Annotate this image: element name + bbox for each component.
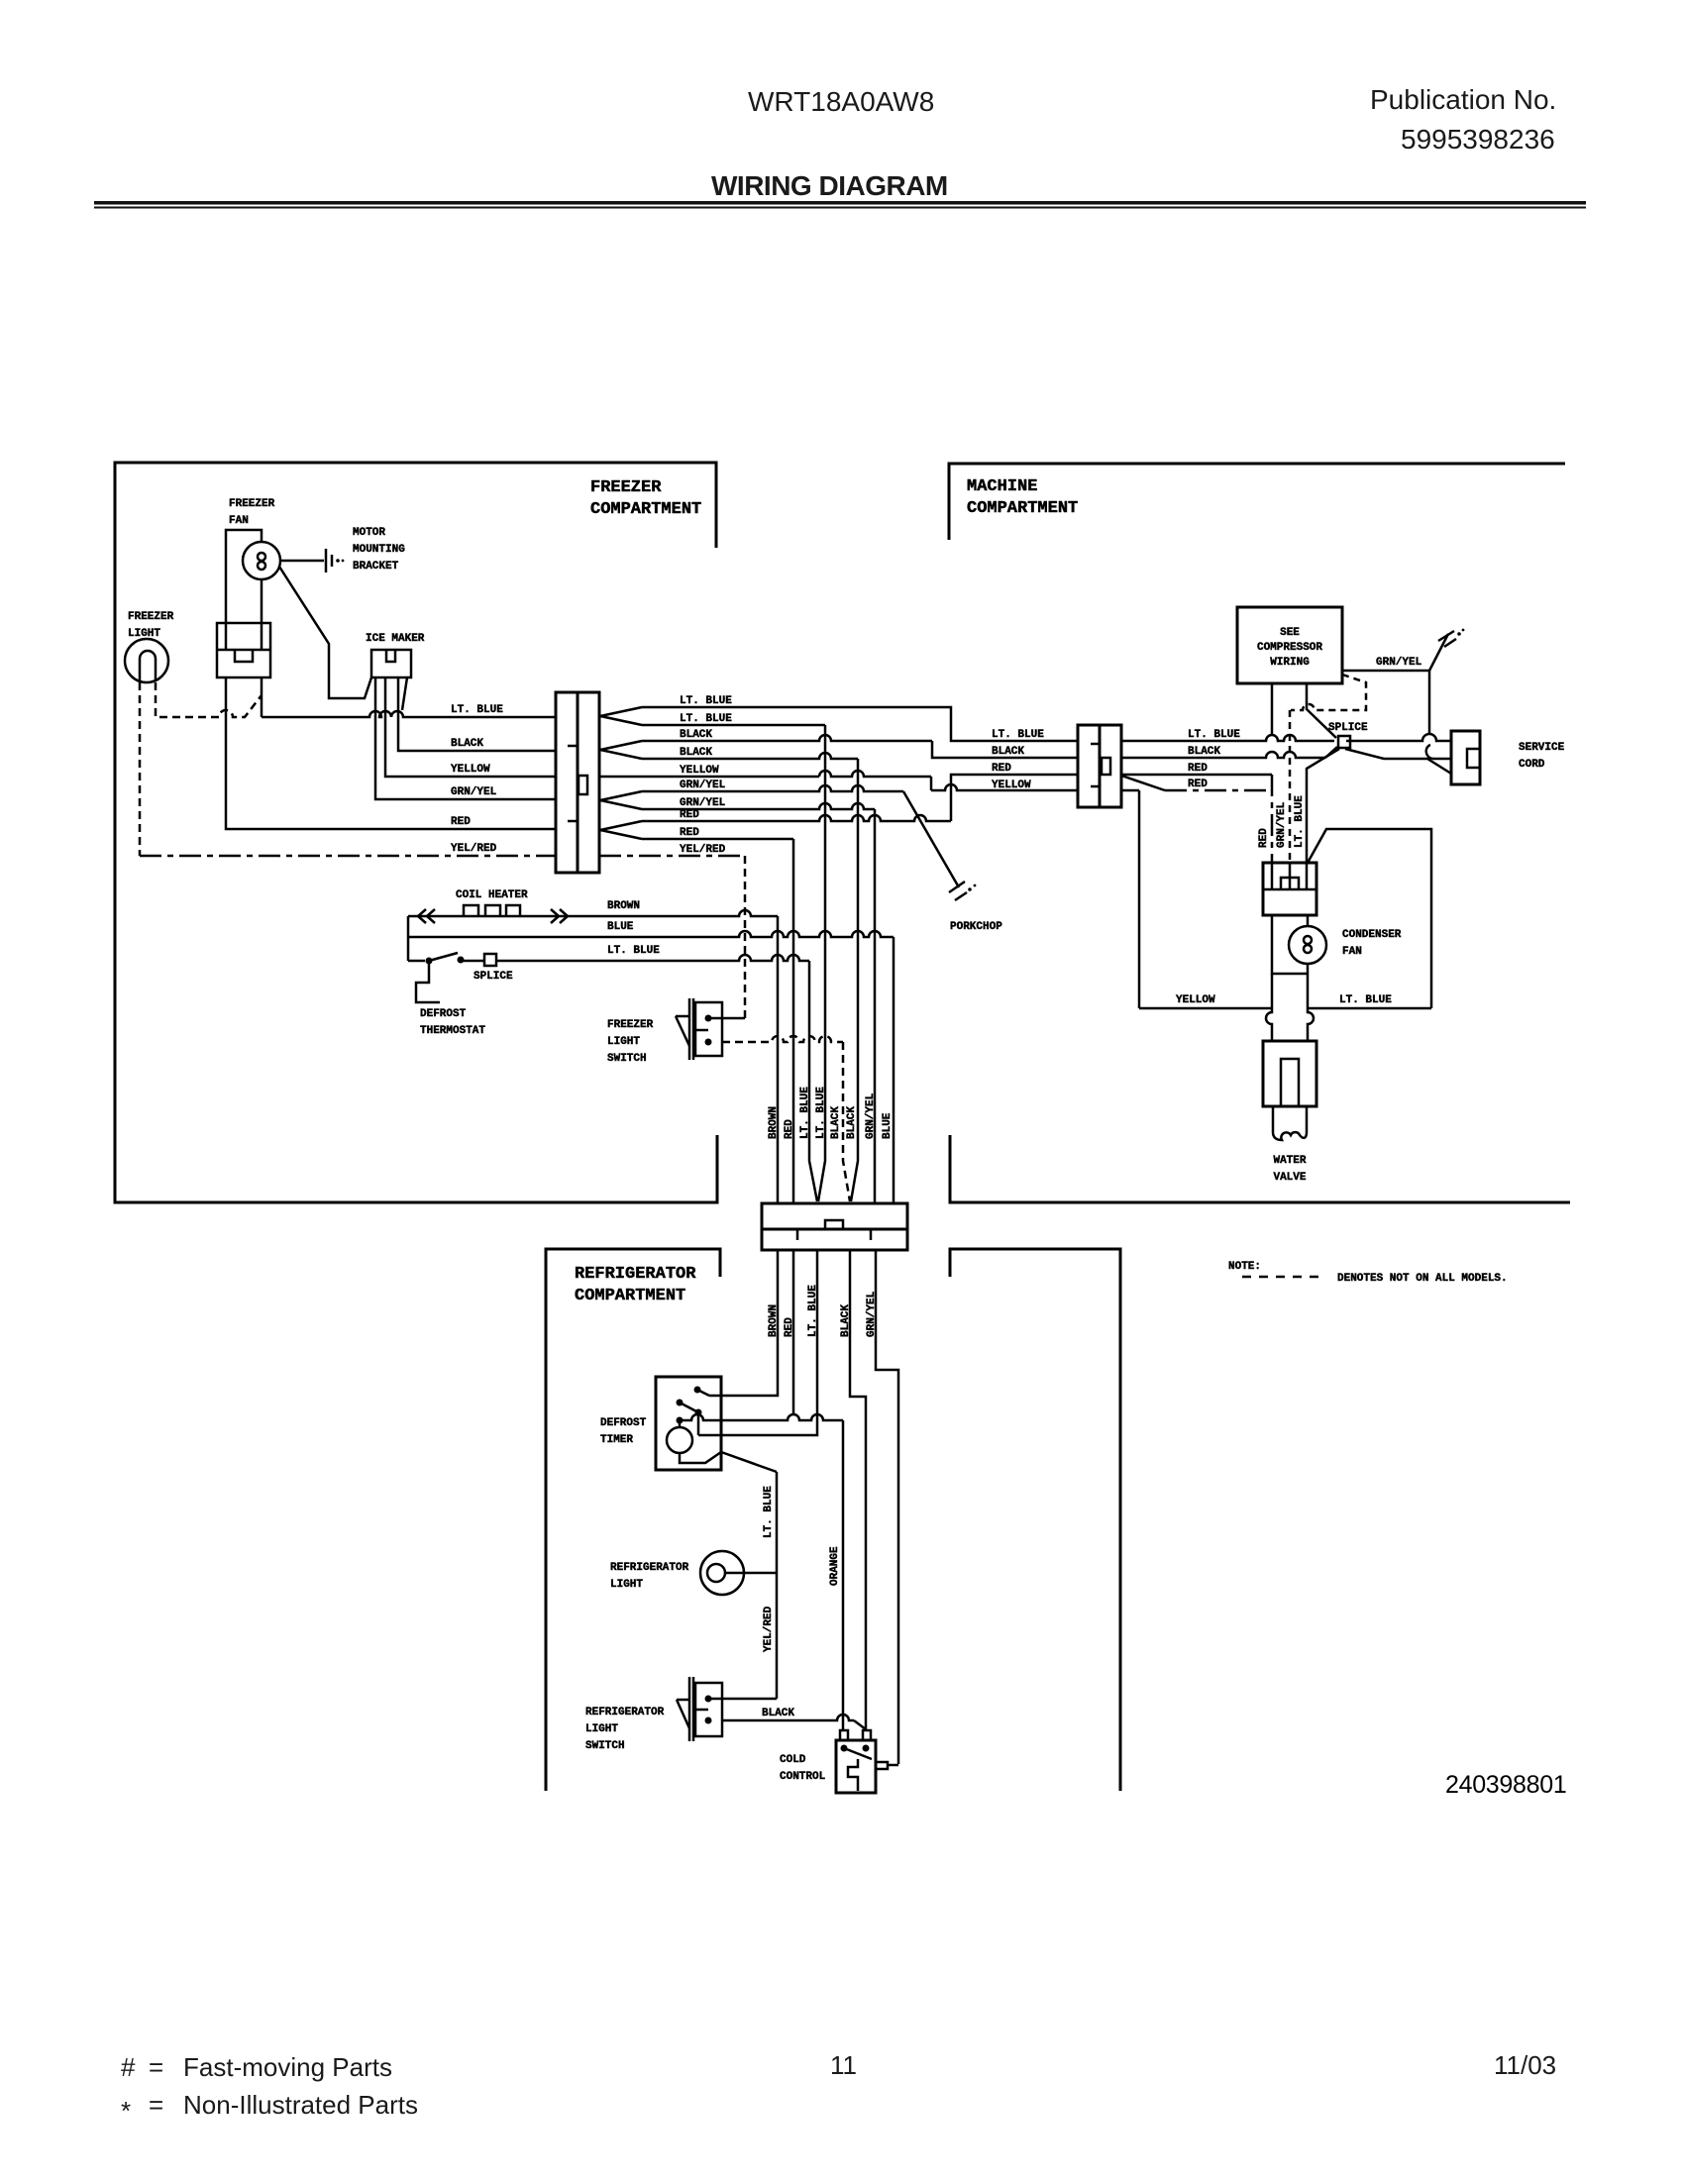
- svg-text:SERVICE: SERVICE: [1519, 742, 1565, 754]
- svg-text:MACHINE: MACHINE: [967, 477, 1037, 496]
- wire lt. blue to defrost timer: [698, 1250, 817, 1435]
- svg-text:BRACKET: BRACKET: [353, 561, 399, 572]
- wire brown to defrost timer: [709, 1250, 778, 1396]
- freezer light switch: [689, 998, 693, 1060]
- svg-text:RED: RED: [451, 816, 471, 828]
- porkchop ground: [903, 791, 959, 887]
- wire grn/yel down: [876, 1250, 898, 1764]
- timer motor: [679, 1420, 682, 1427]
- svg-text:LT. BLUE: LT. BLUE: [1294, 795, 1306, 848]
- compressor wiring box: [1237, 607, 1342, 683]
- svg-text:WIRING DIAGRAM: WIRING DIAGRAM: [711, 170, 948, 201]
- wire red #1 to machine: [642, 815, 951, 821]
- wire black down: [850, 1250, 866, 1729]
- title model number: [711, 84, 1556, 201]
- wire red to defrost timer: [792, 1250, 795, 1414]
- footer legend: [121, 2050, 1556, 2126]
- svg-text:LIGHT: LIGHT: [610, 1579, 643, 1591]
- svg-text:RED: RED: [992, 763, 1011, 775]
- svg-text:COMPRESSOR: COMPRESSOR: [1257, 642, 1322, 654]
- svg-text:LT. BLUE: LT. BLUE: [680, 713, 732, 725]
- wire lt. blue #2 down: [642, 724, 825, 727]
- wire red #2 down: [642, 838, 793, 841]
- svg-text:FAN: FAN: [229, 515, 249, 527]
- svg-text:BLACK: BLACK: [451, 738, 483, 750]
- wire lt. blue #1 to machine: [642, 707, 1078, 741]
- svg-text:ORANGE: ORANGE: [829, 1546, 841, 1586]
- svg-text:BLACK: BLACK: [680, 747, 712, 759]
- wire blue vertical: [893, 937, 895, 1204]
- refrigerator compartment border: [546, 1249, 720, 1791]
- svg-text:Non-Illustrated Parts: Non-Illustrated Parts: [183, 2090, 418, 2120]
- wire orange from timer: [680, 1414, 843, 1420]
- svg-text:=: =: [149, 2052, 163, 2082]
- svg-text:RED: RED: [1188, 763, 1208, 775]
- svg-text:YELLOW: YELLOW: [680, 765, 719, 777]
- svg-text:MOUNTING: MOUNTING: [353, 544, 405, 556]
- svg-text:Publication No.: Publication No.: [1370, 84, 1556, 115]
- svg-text:BLACK: BLACK: [680, 729, 712, 741]
- wire red row left: [226, 677, 556, 829]
- svg-text:BLACK: BLACK: [992, 746, 1024, 758]
- svg-text:RED: RED: [1258, 828, 1270, 848]
- svg-text:RED: RED: [784, 1317, 795, 1337]
- svg-text:REFRIGERATOR: REFRIGERATOR: [575, 1265, 696, 1284]
- svg-text:GRN/YEL: GRN/YEL: [866, 1291, 878, 1337]
- wire switch to black dashed: [722, 1036, 843, 1042]
- svg-text:REFRIGERATOR: REFRIGERATOR: [610, 1562, 689, 1574]
- connector crimp arrows: [600, 707, 642, 725]
- wire freezer light to yel/red dashed: [139, 682, 142, 856]
- wire fan to ice maker: [279, 567, 371, 698]
- svg-text:YELLOW: YELLOW: [992, 780, 1031, 791]
- refrigerator light switch: [689, 1677, 693, 1741]
- machine compartment border: [949, 464, 1565, 540]
- svg-text:COMPARTMENT: COMPARTMENT: [967, 499, 1078, 518]
- svg-text:YELLOW: YELLOW: [1176, 994, 1215, 1006]
- svg-text:NOTE:: NOTE:: [1228, 1261, 1261, 1273]
- ice maker connector: [371, 650, 411, 677]
- svg-text:BROWN: BROWN: [768, 1106, 780, 1139]
- svg-text:*: *: [121, 2096, 131, 2126]
- svg-text:LT. BLUE: LT. BLUE: [799, 1087, 811, 1139]
- wire lt. blue vertical #2: [818, 725, 825, 1201]
- wire coil heater left drop: [407, 916, 410, 961]
- svg-text:GRN/YEL: GRN/YEL: [1376, 657, 1422, 669]
- svg-text:DENOTES NOT ON ALL MODELS.: DENOTES NOT ON ALL MODELS.: [1337, 1273, 1508, 1285]
- freezer compartment label: [575, 477, 1078, 1305]
- svg-text:BLUE: BLUE: [882, 1112, 894, 1139]
- svg-text:TIMER: TIMER: [600, 1434, 633, 1446]
- svg-text:5995398236: 5995398236: [1401, 124, 1555, 155]
- svg-text:RED: RED: [784, 1119, 795, 1139]
- wire yellow loop: [1139, 1007, 1272, 1010]
- freezer compartment border: [115, 463, 717, 1202]
- svg-text:SWITCH: SWITCH: [585, 1740, 625, 1752]
- svg-text:FREEZER: FREEZER: [607, 1019, 654, 1031]
- svg-text:BROWN: BROWN: [607, 900, 640, 912]
- svg-text:CORD: CORD: [1519, 759, 1545, 771]
- svg-text:#: #: [121, 2052, 136, 2082]
- svg-text:CONDENSER: CONDENSER: [1342, 929, 1402, 941]
- svg-text:240398801: 240398801: [1445, 1771, 1566, 1799]
- freezer fan motor: [226, 530, 262, 623]
- wire compressor grn/yel dashed: [1291, 675, 1366, 710]
- water valve: [1263, 1041, 1316, 1106]
- svg-text:FREEZER: FREEZER: [128, 611, 174, 623]
- svg-text:LT. BLUE: LT. BLUE: [807, 1285, 819, 1337]
- ground top right: [1429, 634, 1448, 671]
- svg-text:YEL/RED: YEL/RED: [451, 843, 497, 855]
- wire ice maker pin1 grn/yel: [375, 677, 556, 799]
- svg-text:WRT18A0AW8: WRT18A0AW8: [748, 86, 934, 117]
- svg-text:BROWN: BROWN: [768, 1304, 780, 1337]
- wire yellow to machine: [599, 776, 819, 779]
- svg-text:COMPARTMENT: COMPARTMENT: [575, 1287, 685, 1305]
- svg-text:RED: RED: [680, 827, 699, 839]
- wire black vertical #2: [851, 759, 858, 1201]
- svg-text:BLUE: BLUE: [607, 921, 634, 933]
- coil heater element: [408, 910, 778, 916]
- defrost timer: [656, 1377, 721, 1470]
- svg-text:REFRIGERATOR: REFRIGERATOR: [585, 1707, 665, 1718]
- svg-text:LT. BLUE: LT. BLUE: [815, 1087, 827, 1139]
- freezer light lamp: [125, 639, 168, 682]
- svg-text:VALVE: VALVE: [1273, 1172, 1306, 1184]
- svg-text:FREEZER: FREEZER: [590, 478, 662, 497]
- wire switch to yel/red: [708, 1017, 745, 1020]
- svg-text:COMPARTMENT: COMPARTMENT: [590, 500, 701, 519]
- svg-text:FAN: FAN: [1342, 946, 1362, 958]
- wire lt. blue vertical #1: [809, 961, 817, 1201]
- svg-text:PORKCHOP: PORKCHOP: [950, 921, 1002, 933]
- svg-text:YEL/RED: YEL/RED: [680, 844, 726, 856]
- wire grn/yel #1 to porkchop: [642, 785, 903, 791]
- service cord: [1451, 731, 1480, 784]
- svg-text:11/03: 11/03: [1494, 2050, 1556, 2080]
- wire yellow stub down: [1121, 790, 1139, 1008]
- refrigerator light: [700, 1551, 744, 1595]
- svg-text:ICE MAKER: ICE MAKER: [366, 633, 425, 645]
- wire lt.blue to splice to service: [1121, 735, 1334, 741]
- wire freezer light to lt.blue dashed: [156, 682, 262, 717]
- svg-text:LIGHT: LIGHT: [607, 1036, 640, 1048]
- connector machine harness: [1078, 725, 1121, 807]
- svg-text:LT. BLUE: LT. BLUE: [1339, 994, 1392, 1006]
- svg-text:CONTROL: CONTROL: [780, 1771, 826, 1783]
- wire yel/red dash-dot right: [599, 855, 745, 858]
- svg-text:DEFROST: DEFROST: [420, 1008, 467, 1020]
- cold control: [836, 1740, 876, 1793]
- relay overload box: [1263, 863, 1316, 915]
- svg-text:LT. BLUE: LT. BLUE: [680, 695, 732, 707]
- svg-text:THERMOSTAT: THERMOSTAT: [420, 1025, 485, 1037]
- wire brown vertical: [777, 916, 780, 1204]
- svg-text:LT. BLUE: LT. BLUE: [607, 945, 660, 957]
- connector freezer harness: [556, 692, 599, 873]
- svg-text:BLACK: BLACK: [840, 1304, 852, 1337]
- svg-text:MOTOR: MOTOR: [353, 527, 385, 539]
- wire black #1 to machine: [642, 735, 932, 741]
- svg-text:=: =: [149, 2090, 163, 2120]
- wire ice maker pin3 black: [398, 677, 556, 751]
- svg-text:BLACK: BLACK: [1188, 746, 1220, 758]
- svg-text:SEE: SEE: [1280, 627, 1300, 639]
- svg-text:WATER: WATER: [1273, 1155, 1306, 1167]
- svg-text:RED: RED: [1188, 779, 1208, 790]
- wire switch to yel/red: [708, 1698, 777, 1701]
- svg-text:GRN/YEL: GRN/YEL: [1276, 801, 1288, 848]
- svg-text:YEL/RED: YEL/RED: [763, 1606, 775, 1652]
- wire grn/yel #2 down: [642, 803, 875, 809]
- wire black to splice: [1121, 752, 1325, 758]
- header rule: [94, 201, 1586, 205]
- svg-text:SWITCH: SWITCH: [607, 1053, 647, 1065]
- wire red dash-dot to relay: [1121, 776, 1165, 790]
- svg-text:FREEZER: FREEZER: [229, 498, 275, 510]
- wire lt. blue loop: [1308, 829, 1431, 1008]
- wire splice to service lower: [1345, 749, 1451, 774]
- wire red row machine right: [1121, 774, 1272, 777]
- wire black #2 down: [642, 753, 858, 759]
- wire yel/red row dash-dot: [140, 855, 556, 858]
- svg-text:LT. BLUE: LT. BLUE: [992, 729, 1044, 741]
- svg-text:GRN/YEL: GRN/YEL: [680, 780, 726, 791]
- motor mounting bracket: [280, 560, 324, 563]
- wire compressor lead 1: [1271, 683, 1274, 734]
- svg-text:GRN/YEL: GRN/YEL: [680, 797, 726, 809]
- svg-text:SPLICE: SPLICE: [474, 971, 513, 983]
- wire lt. blue to refrigerator light: [776, 1472, 779, 1699]
- svg-text:BLACK: BLACK: [762, 1708, 794, 1719]
- wires into water valve: [1266, 974, 1272, 1041]
- svg-text:COLD: COLD: [780, 1754, 806, 1766]
- svg-text:GRN/YEL: GRN/YEL: [451, 786, 497, 798]
- svg-text:LT. BLUE: LT. BLUE: [763, 1486, 775, 1538]
- svg-text:COIL HEATER: COIL HEATER: [456, 889, 528, 901]
- wire compressor lead 2: [1307, 683, 1336, 738]
- svg-text:Fast-moving Parts: Fast-moving Parts: [183, 2052, 392, 2082]
- wire red vertical: [792, 839, 795, 1204]
- wire lt. blue row left: [261, 677, 263, 717]
- fan mounting bracket connector: [217, 623, 270, 677]
- svg-text:YELLOW: YELLOW: [451, 764, 490, 776]
- wire ice maker pin4 diagonal: [402, 677, 407, 710]
- svg-text:DEFROST: DEFROST: [600, 1417, 647, 1429]
- svg-text:LT. BLUE: LT. BLUE: [451, 704, 503, 716]
- svg-text:WIRING: WIRING: [1270, 657, 1310, 669]
- svg-text:LT. BLUE: LT. BLUE: [1188, 729, 1240, 741]
- svg-text:LIGHT: LIGHT: [585, 1723, 618, 1735]
- svg-text:BLACK: BLACK: [830, 1106, 842, 1139]
- connector refrigerator harness: [762, 1203, 907, 1250]
- svg-text:RED: RED: [680, 809, 699, 821]
- wire grn/yel vertical: [874, 809, 877, 1204]
- wire black vertical dashed: [843, 1042, 850, 1201]
- svg-text:11: 11: [830, 2050, 857, 2080]
- svg-text:SPLICE: SPLICE: [1328, 722, 1368, 734]
- condenser fan: [1272, 915, 1308, 974]
- wire grn/yel into service: [1426, 745, 1432, 759]
- wire ice maker pin2 yellow: [385, 677, 556, 777]
- svg-text:BLACK: BLACK: [846, 1106, 858, 1139]
- svg-text:GRN/YEL: GRN/YEL: [865, 1092, 877, 1139]
- wire lt.blue splice to relay: [1307, 749, 1339, 863]
